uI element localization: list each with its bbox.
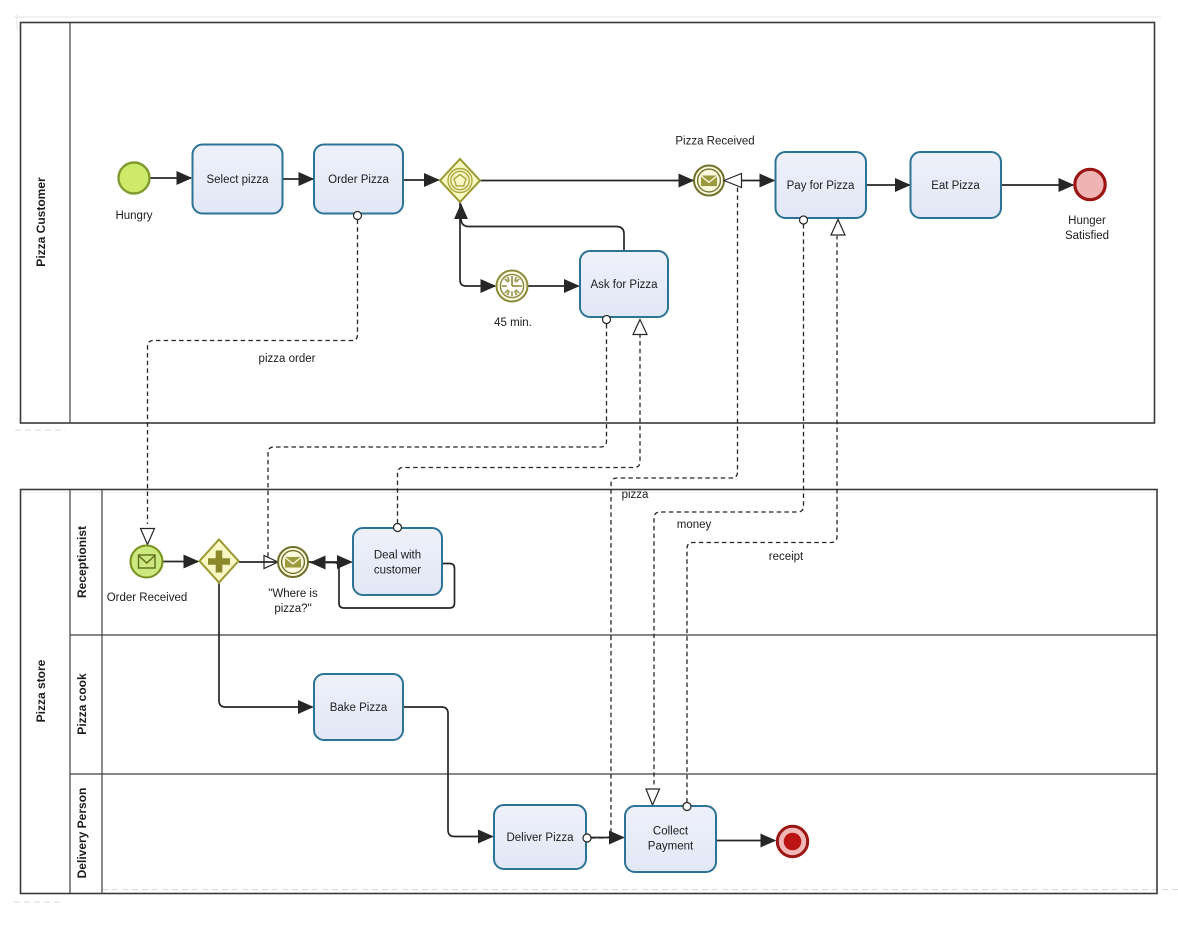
- pool Pizza Customer: [21, 23, 1155, 424]
- sequence flow Hungry to Select pizza: [150, 177, 191, 179]
- sequence flow Select pizza to Order Pizza: [283, 178, 313, 180]
- message source circle on Deliver Pizza right: [583, 834, 591, 842]
- svg-text:Delivery Person: Delivery Person: [75, 788, 89, 879]
- terminate end event: [777, 826, 807, 856]
- svg-text:Hungry: Hungry: [115, 210, 152, 222]
- end event Hunger Satisfied: [1075, 169, 1105, 199]
- page break dashed line mid-left: [15, 429, 66, 431]
- sequence flow timer to Ask for Pizza: [528, 285, 579, 287]
- start event Hungry: [119, 163, 150, 194]
- svg-text:Pay for Pizza: Pay for Pizza: [787, 180, 855, 192]
- svg-text:Satisfied: Satisfied: [1065, 230, 1109, 242]
- lane Receptionist: [70, 526, 1157, 635]
- svg-text:Ask for Pizza: Ask for Pizza: [590, 279, 658, 291]
- sequence flow Order Received to parallel gateway: [162, 561, 198, 563]
- svg-text:customer: customer: [374, 565, 421, 577]
- timer event 45 min: [497, 271, 528, 302]
- lane Pizza cook: [70, 673, 1157, 774]
- pool Pizza store: [21, 490, 1158, 894]
- svg-text:45 min.: 45 min.: [494, 317, 532, 329]
- sequence flow gateway to timer: [460, 202, 495, 286]
- sequence flow Pizza Received to Pay for Pizza: [724, 180, 774, 182]
- sequence flow Deal with customer loop back to event: [311, 563, 455, 609]
- svg-text:receipt: receipt: [769, 551, 804, 563]
- task Deal with customer: [353, 528, 442, 595]
- svg-text:Deliver Pizza: Deliver Pizza: [506, 832, 574, 844]
- task Select pizza: [193, 145, 283, 214]
- svg-text:Pizza Customer: Pizza Customer: [34, 177, 48, 267]
- svg-text:pizza order: pizza order: [259, 353, 316, 365]
- sequence flow Deliver Pizza to Collect Payment: [586, 837, 624, 839]
- svg-text:money: money: [677, 519, 712, 531]
- svg-text:pizza?": pizza?": [274, 603, 311, 615]
- svg-text:Payment: Payment: [648, 841, 694, 853]
- svg-text:"Where is: "Where is: [268, 588, 318, 600]
- task Order Pizza: [314, 145, 403, 214]
- message flow pizza order: [141, 212, 362, 545]
- svg-text:Bake Pizza: Bake Pizza: [330, 702, 388, 714]
- svg-text:Order Received: Order Received: [107, 592, 188, 604]
- svg-text:Eat Pizza: Eat Pizza: [931, 180, 980, 192]
- page margin guide left: [16, 14, 18, 30]
- svg-text:pizza: pizza: [622, 489, 649, 501]
- faint highlight under bottom pool top edge: [22, 492, 1156, 494]
- sequence flow parallel gateway to Where is pizza event: [239, 561, 276, 563]
- intermediate message event Pizza Received: [694, 166, 724, 196]
- sequence flow Bake Pizza to Deliver Pizza: [403, 707, 493, 837]
- svg-text:Deal with: Deal with: [374, 550, 421, 562]
- message flow deal with customer to ask for pizza: [394, 320, 648, 532]
- sequence flow Eat Pizza to Hunger Satisfied: [1001, 184, 1073, 186]
- sequence flow Ask for Pizza back to gateway: [461, 205, 624, 252]
- sequence flow Pay for Pizza to Eat Pizza: [866, 184, 910, 186]
- svg-text:Pizza Received: Pizza Received: [675, 136, 754, 148]
- lane Delivery Person: [75, 788, 89, 879]
- event gateway: [440, 159, 480, 202]
- message flow where is pizza: [264, 316, 611, 569]
- svg-text:Receptionist: Receptionist: [75, 526, 89, 598]
- sequence flow Collect Payment to end: [716, 840, 775, 842]
- page break dashed line bottom: [102, 889, 1178, 891]
- sequence flow Where is pizza event to Deal with customer: [308, 561, 352, 563]
- message flow money: [646, 216, 808, 805]
- page margin guide top: [14, 16, 1161, 18]
- sequence flow gateway to Pizza Received: [480, 180, 693, 182]
- svg-text:Collect: Collect: [653, 826, 689, 838]
- intermediate message event Where is pizza: [278, 547, 308, 577]
- svg-text:Order Pizza: Order Pizza: [328, 174, 389, 186]
- task Eat Pizza: [911, 152, 1002, 218]
- svg-text:Select pizza: Select pizza: [206, 174, 269, 186]
- task Collect Payment: [625, 806, 716, 872]
- message start event Order Received: [131, 546, 163, 578]
- page break dashed line bottom-left: [14, 901, 64, 903]
- message source circle on Collect Payment top: [683, 803, 691, 811]
- task Pay for Pizza: [776, 152, 867, 218]
- task Ask for Pizza: [580, 251, 668, 317]
- svg-text:Hunger: Hunger: [1068, 215, 1106, 227]
- sequence flow Order Pizza to gateway: [403, 179, 439, 181]
- svg-text:Pizza cook: Pizza cook: [75, 673, 89, 735]
- task Deliver Pizza: [494, 805, 586, 869]
- svg-text:Pizza store: Pizza store: [34, 659, 48, 722]
- message source circle on Deal with customer top: [394, 524, 402, 532]
- parallel gateway: [200, 540, 239, 583]
- sequence flow parallel gateway to Bake Pizza: [219, 584, 313, 708]
- message flow receipt: [683, 220, 845, 811]
- message flow pizza: [583, 174, 742, 843]
- task Bake Pizza: [314, 674, 403, 740]
